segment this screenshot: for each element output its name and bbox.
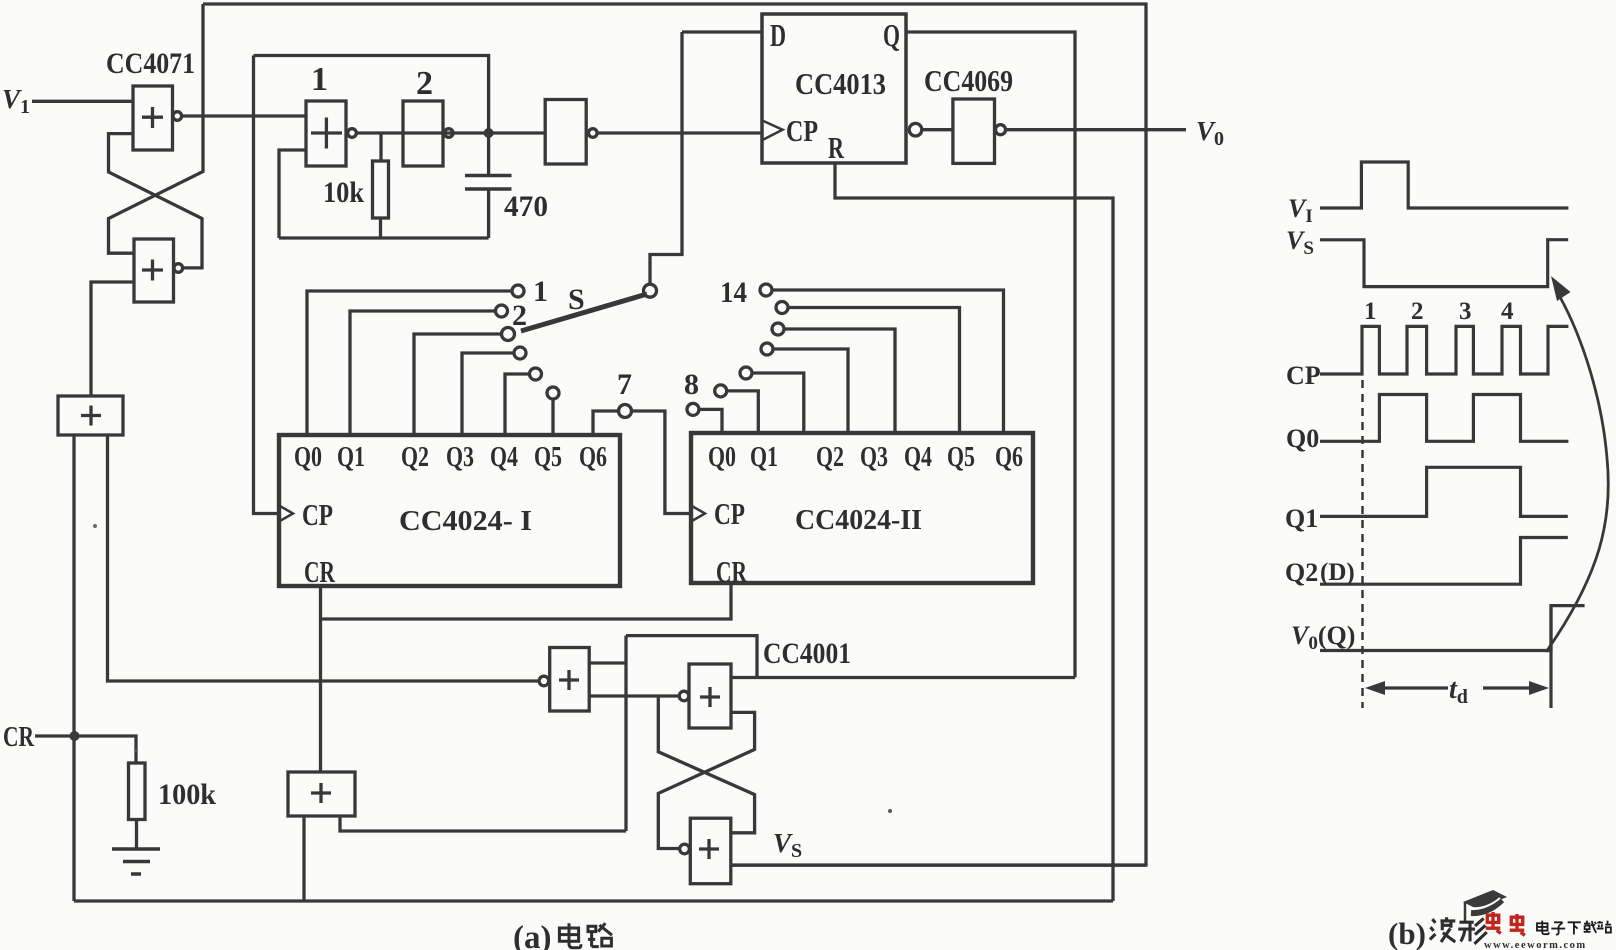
svg-text:Q4: Q4 bbox=[490, 442, 518, 473]
svg-text:2: 2 bbox=[416, 65, 433, 102]
svg-text:Q5: Q5 bbox=[947, 442, 975, 473]
svg-text:Q6: Q6 bbox=[995, 442, 1023, 473]
svg-text:VI: VI bbox=[1288, 194, 1313, 227]
svg-text:CP: CP bbox=[1286, 361, 1321, 390]
svg-text:Q: Q bbox=[883, 17, 900, 53]
svg-text:(a): (a) bbox=[513, 920, 551, 950]
svg-text:VS: VS bbox=[773, 828, 802, 862]
svg-text:V0: V0 bbox=[1196, 116, 1224, 150]
svg-text:1: 1 bbox=[1364, 298, 1377, 325]
svg-text:CP: CP bbox=[302, 497, 333, 532]
svg-text:Q6: Q6 bbox=[579, 442, 607, 473]
svg-text:Q1: Q1 bbox=[337, 442, 365, 473]
svg-text:100k: 100k bbox=[158, 778, 216, 811]
svg-text:R: R bbox=[828, 130, 844, 165]
svg-text:V1: V1 bbox=[2, 84, 30, 118]
svg-text:CC4024- I: CC4024- I bbox=[399, 505, 532, 537]
svg-text:td: td bbox=[1449, 674, 1468, 708]
svg-text:VS: VS bbox=[1286, 226, 1314, 259]
svg-text:14: 14 bbox=[720, 276, 747, 309]
svg-text:1: 1 bbox=[311, 61, 328, 98]
svg-text:2: 2 bbox=[512, 299, 527, 332]
svg-text:Q4: Q4 bbox=[904, 442, 932, 473]
svg-text:Q0: Q0 bbox=[1286, 424, 1319, 453]
svg-text:Q1: Q1 bbox=[750, 442, 778, 473]
svg-text:CC4024-II: CC4024-II bbox=[795, 504, 922, 536]
svg-text:8: 8 bbox=[684, 368, 699, 401]
svg-text:www.eeworm.com: www.eeworm.com bbox=[1484, 940, 1587, 950]
svg-text:V0(Q): V0(Q) bbox=[1291, 621, 1355, 654]
svg-text:CP: CP bbox=[786, 113, 818, 148]
svg-text:(b): (b) bbox=[1388, 916, 1426, 950]
svg-text:Q2: Q2 bbox=[816, 442, 844, 473]
svg-text:Q2: Q2 bbox=[401, 442, 429, 473]
svg-text:S: S bbox=[568, 283, 585, 316]
svg-text:CC4071: CC4071 bbox=[106, 47, 195, 80]
svg-text:CC4069: CC4069 bbox=[924, 63, 1013, 98]
svg-text:(D): (D) bbox=[1320, 559, 1355, 586]
svg-text:Q3: Q3 bbox=[446, 442, 474, 473]
svg-text:1: 1 bbox=[533, 275, 548, 308]
svg-text:7: 7 bbox=[617, 368, 632, 401]
svg-text:10k: 10k bbox=[323, 176, 364, 209]
svg-text:Q0: Q0 bbox=[294, 442, 322, 473]
svg-text:D: D bbox=[770, 17, 786, 53]
svg-text:CP: CP bbox=[714, 496, 745, 531]
svg-text:CC4013: CC4013 bbox=[795, 66, 886, 101]
svg-text:CR: CR bbox=[716, 554, 747, 589]
svg-text:CR: CR bbox=[304, 554, 335, 589]
svg-text:CR: CR bbox=[3, 721, 35, 753]
svg-text:4: 4 bbox=[1501, 298, 1514, 325]
svg-text:Q2: Q2 bbox=[1285, 558, 1318, 587]
svg-text:Q1: Q1 bbox=[1285, 504, 1318, 533]
svg-text:Q5: Q5 bbox=[534, 442, 562, 473]
svg-text:Q0: Q0 bbox=[708, 442, 736, 473]
svg-text:CC4001: CC4001 bbox=[763, 637, 851, 670]
svg-text:470: 470 bbox=[504, 190, 548, 223]
svg-text:2: 2 bbox=[1411, 298, 1424, 325]
svg-text:Q3: Q3 bbox=[860, 442, 888, 473]
svg-text:3: 3 bbox=[1459, 298, 1472, 325]
